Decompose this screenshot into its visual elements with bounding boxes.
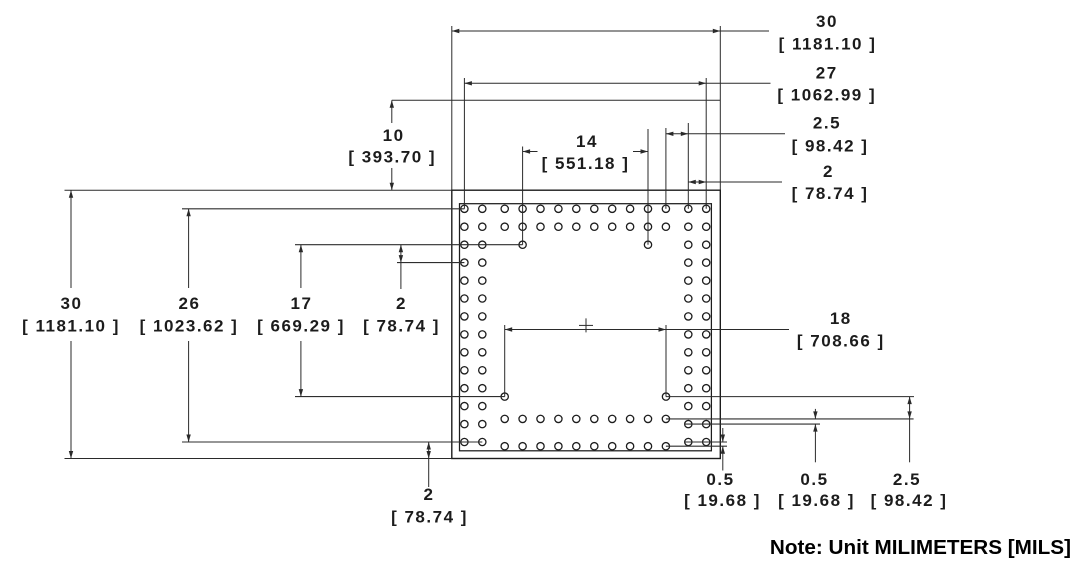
svg-text:0.5: 0.5 [800, 470, 828, 489]
svg-text:26: 26 [179, 294, 201, 313]
svg-text:2: 2 [823, 162, 834, 181]
pad row bottom central outer (10 pads) [501, 443, 669, 450]
dimension 26 left with extension lines and label [1023.62] [140, 209, 483, 442]
pad column left outer (rows 3-14) [461, 241, 468, 446]
dimension 30 top with extension lines and label [1181.10] [452, 12, 877, 190]
svg-text:30: 30 [816, 12, 838, 31]
svg-text:[ 669.29 ]: [ 669.29 ] [257, 317, 345, 336]
note text units [770, 536, 1071, 559]
svg-text:[ 1181.10 ]: [ 1181.10 ] [22, 317, 120, 336]
svg-text:27: 27 [816, 63, 838, 82]
pad area outline [460, 204, 712, 451]
dimension 2 left with extension line and label [78.74] [363, 245, 464, 336]
pad row bottom central inner (10 pads) [501, 415, 669, 422]
dimension 27 top with extension lines and label [1062.99] [464, 63, 876, 208]
inner ring top corner pad right [644, 241, 651, 248]
dimension 10 left top with extension line and label [393.70] [348, 100, 720, 190]
pad column right inner (rows 3-14) [685, 241, 692, 446]
dimension 2.5 bottom right with extension line and label [98.42] [666, 397, 948, 511]
dimension 0.5 bottom first with extension lines and label [19.68] [666, 428, 761, 510]
svg-text:17: 17 [291, 294, 313, 313]
svg-text:14: 14 [576, 132, 598, 151]
svg-text:[ 78.74 ]: [ 78.74 ] [391, 508, 468, 527]
svg-text:18: 18 [830, 309, 852, 328]
center mark cross [579, 318, 593, 332]
module body outline 30x30 [452, 190, 721, 458]
svg-text:2: 2 [424, 485, 435, 504]
pad column left inner (rows 3-14) [479, 241, 486, 446]
svg-text:Note: Unit MILIMETERS [MILS]: Note: Unit MILIMETERS [MILS] [770, 536, 1071, 559]
inner ring top corner pad left [519, 241, 526, 248]
svg-text:10: 10 [383, 126, 405, 145]
dimension 18 middle with extension lines and label [708.66] [505, 309, 885, 397]
pad row 1 top outer (14 pads) [461, 205, 710, 212]
svg-text:[ 78.74 ]: [ 78.74 ] [363, 317, 440, 336]
inner ring bottom corner pad left [501, 393, 508, 400]
svg-text:[ 551.18 ]: [ 551.18 ] [542, 154, 630, 173]
inner ring bottom corner pad right [662, 393, 669, 400]
svg-text:[ 98.42 ]: [ 98.42 ] [871, 491, 948, 510]
svg-text:0.5: 0.5 [706, 470, 734, 489]
svg-text:2.5: 2.5 [813, 114, 841, 133]
dimension 2 top right with extension line and label [78.74] [688, 162, 868, 203]
dimension 17 left with extension lines and label [669.29] [257, 245, 522, 397]
svg-text:[ 78.74 ]: [ 78.74 ] [792, 184, 869, 203]
dimension 2 bottom left with label [78.74] [391, 442, 468, 527]
svg-text:[ 393.70 ]: [ 393.70 ] [348, 148, 436, 167]
svg-text:[ 98.42 ]: [ 98.42 ] [792, 137, 869, 156]
pad column right outer (rows 3-14) [703, 241, 710, 446]
svg-text:30: 30 [61, 294, 83, 313]
svg-text:2.5: 2.5 [893, 470, 921, 489]
svg-text:[ 1062.99 ]: [ 1062.99 ] [777, 85, 876, 104]
svg-text:[ 708.66 ]: [ 708.66 ] [797, 332, 885, 351]
svg-text:[ 1023.62 ]: [ 1023.62 ] [140, 317, 239, 336]
svg-text:[ 19.68 ]: [ 19.68 ] [684, 491, 761, 510]
svg-text:[ 19.68 ]: [ 19.68 ] [778, 491, 855, 510]
dimension 14 top middle with extension lines and label [551.18] [523, 129, 648, 245]
svg-text:[ 1181.10 ]: [ 1181.10 ] [779, 35, 877, 54]
pad row 2 top inner (14 pads) [461, 223, 710, 230]
dimension 2.5 top right with extension lines and label [98.42] [666, 114, 869, 209]
dimension 0.5 bottom second with extension lines and label [19.68] [666, 409, 914, 510]
dimension 30 left with extension lines and label [1181.10] [22, 190, 452, 458]
svg-text:2: 2 [396, 294, 407, 313]
